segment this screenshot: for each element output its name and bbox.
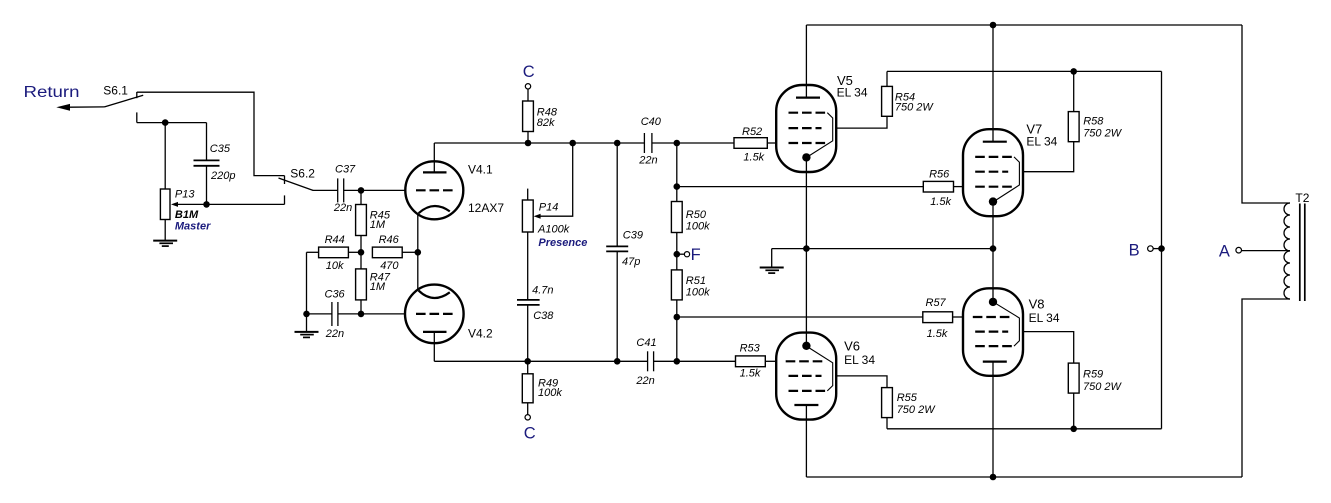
switch S6.1 lever xyxy=(105,95,144,107)
wire R44 left lead xyxy=(307,251,319,253)
svg-text:B1M: B1M xyxy=(175,209,199,221)
pentode V8 grid g3 xyxy=(975,302,1019,346)
wire anode top bus xyxy=(806,24,1242,26)
transformer T2 core xyxy=(1300,204,1305,302)
wire node to R53 xyxy=(677,360,736,362)
switch S6.2 top contact xyxy=(284,176,286,184)
wire S6.2 bottom contact to P13 wiper xyxy=(178,203,285,205)
wire R46 right lead to cathode node xyxy=(402,251,418,253)
triode V4.2 cathode xyxy=(418,252,450,298)
junction V8 anode on bottom bus xyxy=(990,474,997,481)
pentode V8 grid g1 xyxy=(973,316,1012,318)
pentode V7 grid g2 xyxy=(975,171,1008,173)
wire C36 left lead xyxy=(307,313,332,315)
svg-text:22n: 22n xyxy=(638,155,657,167)
svg-text:C37: C37 xyxy=(335,164,356,176)
wire V5 cathode to V6 cathode xyxy=(805,157,807,345)
wire V8 g2 to R59 xyxy=(1023,332,1074,364)
triode V4.1 anode xyxy=(423,143,447,172)
wire cathode bus to ground xyxy=(772,248,993,250)
svg-text:EL 34: EL 34 xyxy=(1029,311,1060,325)
wire to terminal F xyxy=(677,253,685,255)
svg-text:1.5k: 1.5k xyxy=(743,152,764,164)
wire V5 g2 to R54 xyxy=(836,116,887,128)
svg-text:Return: Return xyxy=(24,84,80,101)
wire C39 bottom lead xyxy=(616,252,618,362)
svg-text:A: A xyxy=(1219,243,1230,261)
wire V7 g2 to R58 xyxy=(1023,142,1074,172)
wire top bus to T2 primary top xyxy=(1242,25,1290,203)
resistor R52 xyxy=(734,138,767,149)
junction C39 top on anode bus xyxy=(614,140,621,147)
resistor R45 bottom lead xyxy=(360,236,362,253)
wire R44 right lead xyxy=(348,251,361,253)
svg-text:C35: C35 xyxy=(210,143,231,155)
resistor R56 xyxy=(923,181,953,192)
resistor R47 top lead xyxy=(360,252,362,269)
wire R54 top lead xyxy=(886,71,888,86)
svg-text:EL 34: EL 34 xyxy=(837,86,868,100)
pentode V8 envelope xyxy=(963,288,1023,376)
junction P13 top node xyxy=(162,119,169,126)
resistor R57 xyxy=(923,312,953,323)
junction V4.1 grid node xyxy=(358,187,365,194)
svg-text:EL 34: EL 34 xyxy=(1026,134,1057,148)
capacitor C37 xyxy=(338,178,344,202)
potentiometer P14 top stub xyxy=(527,189,529,200)
svg-text:1M: 1M xyxy=(370,219,386,231)
pentode V7 envelope xyxy=(963,129,1023,216)
ground output stage xyxy=(760,249,784,274)
capacitor C35 xyxy=(194,160,220,165)
wire C35 top lead xyxy=(206,123,208,161)
pentode V6 grid g1 xyxy=(786,360,825,362)
junction B terminal xyxy=(1158,245,1165,252)
wire R50 column upper xyxy=(676,143,678,202)
wire B column vertical xyxy=(1161,71,1163,428)
pentode V5 anode xyxy=(796,25,820,98)
svg-text:220p: 220p xyxy=(210,170,235,182)
wire anode bus to P14 wiper xyxy=(540,143,572,216)
wire C38 bottom to bus xyxy=(527,305,529,361)
wire node to R56 xyxy=(677,186,924,188)
terminal B xyxy=(1148,246,1154,252)
svg-text:R50: R50 xyxy=(686,209,707,221)
wire anode bottom bus xyxy=(806,476,1242,478)
capacitor C38 xyxy=(517,300,540,305)
wire lower bus V4.2 anode segment xyxy=(434,360,647,362)
svg-text:1.5k: 1.5k xyxy=(740,368,761,380)
svg-text:12AX7: 12AX7 xyxy=(468,201,504,215)
svg-text:C: C xyxy=(524,425,536,443)
junction R48 bottom on anode bus xyxy=(525,140,532,147)
svg-text:22n: 22n xyxy=(325,328,344,340)
svg-text:1.5k: 1.5k xyxy=(930,196,951,208)
wire C35 bottom lead xyxy=(206,166,208,204)
resistor R44 xyxy=(319,247,349,258)
wire S6.1 top contact to S6.2 top contact xyxy=(137,92,285,175)
capacitor C39 xyxy=(606,246,628,251)
junction R59 on screen return bus xyxy=(1070,426,1077,433)
pentode V7 anode xyxy=(983,25,1007,142)
pentode V5 cathode xyxy=(802,153,810,161)
junction V5 V6 cathodes on bus xyxy=(803,245,810,252)
wire grid node to V4.1 grid xyxy=(361,189,406,191)
wire P14 bottom to C38 xyxy=(527,232,529,300)
junction cathodes V4.1 V4.2 xyxy=(415,249,422,256)
svg-text:82k: 82k xyxy=(537,117,555,129)
triode V4.2 anode xyxy=(423,332,447,361)
wire C41 to node xyxy=(654,360,677,362)
ground below C36 node xyxy=(295,332,319,338)
junction P13 wiper / C35 bottom xyxy=(203,201,210,208)
pentode V5 grid g1 xyxy=(789,142,828,144)
svg-text:V4.1: V4.1 xyxy=(468,163,493,177)
wire R55 bottom lead xyxy=(886,418,888,429)
svg-text:100k: 100k xyxy=(538,387,562,399)
junction R58 top on screens bus xyxy=(1070,68,1077,75)
resistor R45 top lead xyxy=(360,190,362,204)
wire center tap to terminal A xyxy=(1242,250,1290,252)
wire C37 to grid node xyxy=(344,189,361,191)
svg-text:C41: C41 xyxy=(636,337,656,349)
wire R50 to R51 xyxy=(676,233,678,270)
svg-text:V6: V6 xyxy=(844,338,860,353)
pentode V5 grid g2 xyxy=(789,127,822,129)
junction V7 anode on top bus xyxy=(990,22,997,29)
svg-text:C38: C38 xyxy=(533,310,554,322)
ground below P13 xyxy=(153,241,177,247)
svg-text:750 2W: 750 2W xyxy=(897,404,937,416)
svg-text:V4.2: V4.2 xyxy=(468,327,493,341)
wire terminal to R48 xyxy=(527,89,529,101)
capacitor C36 xyxy=(332,302,338,326)
terminal C lower xyxy=(525,415,530,420)
pentode V7 grid g1 xyxy=(975,186,1014,188)
wire R51 bottom lead xyxy=(676,300,678,317)
svg-text:C: C xyxy=(523,63,535,81)
wire node to R57 xyxy=(677,316,923,318)
potentiometer P13 wiper arrow xyxy=(171,202,178,207)
wire grid node to V4.2 grid xyxy=(361,313,405,315)
potentiometer P13 body xyxy=(160,189,170,220)
svg-text:S6.1: S6.1 xyxy=(103,83,128,97)
resistor R46 xyxy=(372,247,402,258)
svg-text:R44: R44 xyxy=(325,234,345,246)
svg-text:22n: 22n xyxy=(333,202,352,214)
svg-text:T2: T2 xyxy=(1295,191,1309,205)
triode V4.2 grid xyxy=(416,313,454,315)
resistor R45 xyxy=(356,205,367,236)
resistor R59 xyxy=(1068,363,1079,393)
triode V4.1 envelope xyxy=(405,161,463,219)
capacitor C40 xyxy=(644,133,652,153)
junction C36 left node xyxy=(303,311,310,318)
resistor R50 xyxy=(671,202,682,233)
svg-text:C36: C36 xyxy=(325,289,346,301)
terminal F xyxy=(684,252,689,257)
pentode V6 anode xyxy=(794,405,818,477)
svg-text:R57: R57 xyxy=(926,297,947,309)
svg-text:1M: 1M xyxy=(370,281,386,293)
junction P14 wiper branch on anode bus xyxy=(569,140,576,147)
svg-text:10k: 10k xyxy=(326,260,344,272)
pentode V6 envelope xyxy=(776,333,836,420)
resistor R49 xyxy=(522,374,533,403)
transformer T2 primary winding xyxy=(1284,203,1290,299)
svg-text:750 2W: 750 2W xyxy=(895,102,935,114)
junction R56 branch xyxy=(674,183,681,190)
capacitor C41 xyxy=(648,351,654,371)
junction node F xyxy=(674,251,681,258)
resistor R49 bottom lead xyxy=(527,403,529,415)
resistor R48 bottom lead xyxy=(527,132,529,144)
wire screen return bus xyxy=(887,428,1162,430)
svg-text:47p: 47p xyxy=(622,256,640,268)
potentiometer P14 body xyxy=(522,200,533,232)
svg-text:1.5k: 1.5k xyxy=(927,328,948,340)
resistor R48 xyxy=(523,101,534,132)
svg-text:R59: R59 xyxy=(1083,368,1103,380)
resistor R49 top lead xyxy=(527,361,529,374)
junction V7 V8 cathodes on bus xyxy=(990,245,997,252)
wire R59 bottom lead xyxy=(1073,393,1075,429)
svg-text:750 2W: 750 2W xyxy=(1083,127,1123,139)
node Return arrow xyxy=(56,104,70,111)
resistor R54 xyxy=(882,86,893,116)
svg-text:R56: R56 xyxy=(929,169,950,181)
terminal A xyxy=(1236,247,1242,253)
pentode V7 grid g3 xyxy=(975,157,1019,202)
junction lower bus R51 column xyxy=(674,358,681,365)
svg-text:R46: R46 xyxy=(379,234,400,246)
svg-text:750 2W: 750 2W xyxy=(1083,381,1123,393)
pentode V6 grid g3 xyxy=(789,347,833,391)
wire P13 bottom to ground xyxy=(164,220,166,241)
svg-text:R53: R53 xyxy=(740,342,761,354)
pentode V8 grid g2 xyxy=(975,331,1008,333)
wire R57 to V8 grid xyxy=(953,316,963,318)
svg-text:EL 34: EL 34 xyxy=(844,353,875,367)
switch S6.2 lever xyxy=(279,178,314,190)
svg-text:Master: Master xyxy=(175,221,211,233)
pentode V6 cathode xyxy=(802,342,810,350)
svg-text:R55: R55 xyxy=(897,392,918,404)
wire V6 g2 to R55 xyxy=(836,376,887,388)
svg-text:C40: C40 xyxy=(641,116,662,128)
wire anode bus V4.1 left segment xyxy=(434,142,644,144)
wire S6.2 lever to C37 xyxy=(313,189,338,191)
svg-text:4.7n: 4.7n xyxy=(532,284,553,296)
junction C38 R49 on lower bus xyxy=(524,358,531,365)
svg-text:Presence: Presence xyxy=(538,237,587,249)
wire S6.1 bottom to C35 top xyxy=(137,122,207,124)
svg-text:22n: 22n xyxy=(635,375,654,387)
wire R51 node to lower bus xyxy=(676,317,678,361)
resistor R47 bottom lead xyxy=(360,300,362,314)
svg-text:C39: C39 xyxy=(623,229,643,241)
svg-text:P14: P14 xyxy=(539,201,559,213)
potentiometer P14 wiper arrow xyxy=(534,214,541,219)
wire R58 top lead xyxy=(1073,71,1075,111)
resistor R47 xyxy=(356,269,367,300)
junction R47 C36 V4.2-grid node xyxy=(358,311,365,318)
resistor R51 xyxy=(671,270,682,300)
svg-text:F: F xyxy=(691,246,701,264)
pentode V6 grid g2 xyxy=(789,375,822,377)
triode V4.1 cathode xyxy=(418,206,450,252)
triode V4.2 envelope xyxy=(405,285,464,344)
wire stub to terminal B xyxy=(1153,248,1161,250)
svg-text:B: B xyxy=(1129,242,1140,260)
svg-text:R51: R51 xyxy=(686,275,706,287)
pentode V8 cathode xyxy=(989,298,997,306)
wire screens bus R54 to B column xyxy=(887,70,1162,72)
wire R56 to V7 grid xyxy=(954,186,964,188)
wire stub to ground at C36 xyxy=(306,314,308,332)
svg-text:A100k: A100k xyxy=(537,223,570,235)
wire R44 left column down to C36 xyxy=(306,252,308,314)
pentode V7 cathode xyxy=(989,197,997,301)
junction anode bus R52 branch xyxy=(674,140,681,147)
switch S6.1 top contact xyxy=(136,92,138,98)
svg-text:100k: 100k xyxy=(686,220,710,232)
wire bottom bus to T2 primary bottom xyxy=(1242,299,1290,477)
wire S6.1 lever to lower row xyxy=(136,112,138,122)
svg-text:R52: R52 xyxy=(742,126,762,138)
pentode V5 envelope xyxy=(776,85,836,172)
svg-text:P13: P13 xyxy=(175,189,195,201)
junction C39 bottom on lower bus xyxy=(614,358,621,365)
resistor R53 xyxy=(736,356,766,367)
wire C39 top lead xyxy=(616,143,618,246)
resistor R58 xyxy=(1068,112,1079,142)
wire node to R52 xyxy=(677,142,734,144)
svg-text:100k: 100k xyxy=(686,286,710,298)
svg-text:V8: V8 xyxy=(1029,296,1045,311)
svg-text:470: 470 xyxy=(380,260,399,272)
wire R52 to V5 grid xyxy=(767,142,776,144)
wire node to P13 top xyxy=(164,123,166,189)
switch S6.2 bottom contact xyxy=(284,195,286,204)
svg-text:R58: R58 xyxy=(1083,116,1104,128)
resistor R55 xyxy=(882,388,893,418)
pentode V5 grid g3 xyxy=(789,113,833,157)
junction R57 branch xyxy=(674,314,681,321)
wire R53 to V6 grid xyxy=(765,360,776,362)
junction R44 R45 R46 R47 node xyxy=(358,249,365,256)
triode V4.1 grid xyxy=(416,189,454,191)
svg-text:S6.2: S6.2 xyxy=(290,167,315,181)
wire C40 to R52 node xyxy=(652,142,677,144)
wire C36 right lead xyxy=(338,313,361,315)
terminal C upper xyxy=(525,84,530,89)
pentode V8 anode xyxy=(983,362,1007,477)
wire return arrow to switch lever xyxy=(70,106,105,108)
